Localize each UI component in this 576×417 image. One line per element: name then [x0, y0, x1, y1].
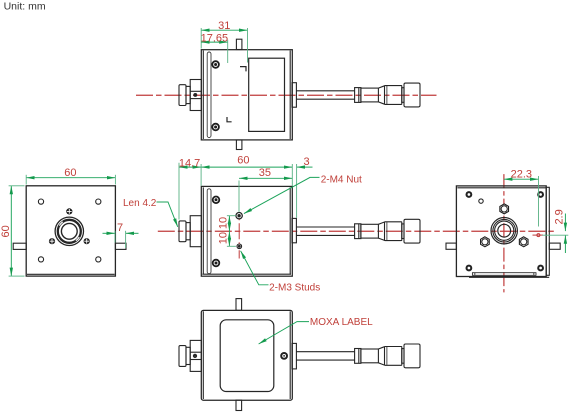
svg-text:17.65: 17.65	[201, 32, 229, 44]
svg-text:35: 35	[259, 167, 271, 179]
svg-text:2-M4 Nut: 2-M4 Nut	[321, 174, 362, 185]
svg-text:14.7: 14.7	[179, 157, 200, 169]
svg-text:Unit: mm: Unit: mm	[4, 1, 46, 13]
svg-text:7: 7	[117, 222, 123, 234]
svg-text:2.9: 2.9	[553, 209, 565, 224]
svg-text:22.3: 22.3	[511, 169, 532, 181]
svg-text:10: 10	[217, 217, 229, 229]
svg-text:Len 4.2: Len 4.2	[123, 198, 157, 209]
svg-text:31: 31	[218, 20, 230, 32]
svg-text:2-M3 Studs: 2-M3 Studs	[269, 283, 320, 294]
svg-text:3: 3	[303, 156, 309, 168]
svg-text:60: 60	[64, 167, 76, 179]
svg-text:10: 10	[217, 232, 229, 244]
svg-text:60: 60	[237, 154, 249, 166]
svg-text:MOXA LABEL: MOXA LABEL	[310, 317, 373, 328]
svg-text:60: 60	[0, 225, 12, 237]
